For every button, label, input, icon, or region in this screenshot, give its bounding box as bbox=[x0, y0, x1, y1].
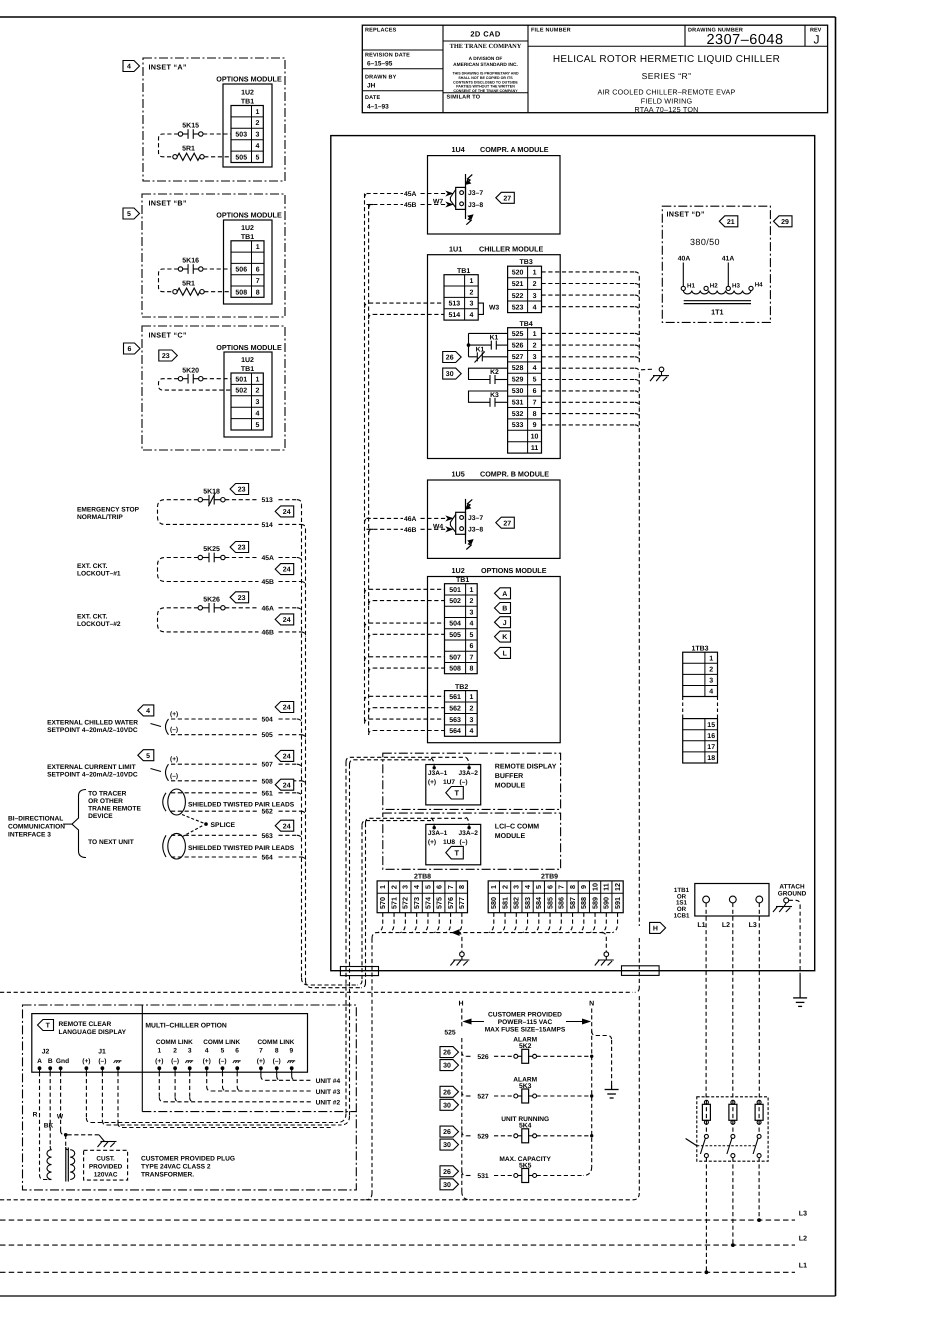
svg-text:23: 23 bbox=[162, 353, 170, 360]
svg-text:J3A–2: J3A–2 bbox=[459, 830, 479, 837]
svg-text:5R1: 5R1 bbox=[182, 280, 195, 287]
svg-text:2TB8: 2TB8 bbox=[414, 873, 431, 880]
contact K1 NO bbox=[469, 344, 492, 346]
svg-text:TB1: TB1 bbox=[456, 577, 469, 584]
wire to 1U8 J3A-2 bbox=[366, 818, 467, 823]
svg-text:(+): (+) bbox=[170, 756, 178, 763]
svg-text:589: 589 bbox=[590, 897, 599, 909]
svg-text:46B: 46B bbox=[262, 629, 275, 636]
svg-text:INTERFACE 3: INTERFACE 3 bbox=[8, 832, 51, 839]
svg-text:SERIES “R”: SERIES “R” bbox=[642, 71, 692, 81]
svg-text:7: 7 bbox=[469, 654, 473, 661]
svg-text:TRANE REMOTE: TRANE REMOTE bbox=[88, 806, 141, 813]
flag J bbox=[495, 617, 511, 628]
bus tail down through feedthrough bbox=[371, 939, 373, 1194]
flag T (remote display) bbox=[38, 1020, 54, 1031]
svg-text:1TB3: 1TB3 bbox=[691, 646, 708, 653]
wire 508 into options TB1-8 bbox=[369, 668, 374, 673]
svg-text:30: 30 bbox=[443, 1182, 451, 1189]
svg-text:1: 1 bbox=[489, 885, 498, 889]
page border frame bbox=[0, 16, 836, 18]
svg-text:K1: K1 bbox=[490, 335, 499, 342]
svg-text:2: 2 bbox=[389, 885, 398, 889]
svg-text:B: B bbox=[48, 1058, 53, 1065]
drop to chassis ground (2TB9) bbox=[602, 933, 607, 952]
svg-text:4: 4 bbox=[469, 621, 473, 628]
flag A bbox=[495, 588, 511, 599]
flag B bbox=[495, 603, 511, 614]
svg-text:561: 561 bbox=[449, 694, 461, 701]
svg-text:5: 5 bbox=[221, 1048, 225, 1055]
2TB8 drop wires bbox=[377, 913, 382, 933]
flag 21 bbox=[719, 216, 738, 227]
svg-text:9: 9 bbox=[579, 885, 588, 889]
lockout 2 contact 5K26 bbox=[198, 606, 202, 610]
svg-text:H1: H1 bbox=[687, 283, 695, 290]
svg-text:10: 10 bbox=[590, 883, 599, 891]
svg-text:T: T bbox=[455, 848, 460, 857]
svg-text:1: 1 bbox=[255, 109, 259, 116]
svg-text:SHIELDED TWISTED PAIR LEADS: SHIELDED TWISTED PAIR LEADS bbox=[188, 801, 295, 808]
svg-text:OR OTHER: OR OTHER bbox=[88, 798, 123, 805]
disconnect 1TB1 box bbox=[695, 884, 769, 917]
svg-text:30: 30 bbox=[443, 1102, 451, 1109]
flag 26 (chiller) bbox=[443, 352, 462, 363]
unit wires group (comm 7-9 to UNIT #4) bbox=[260, 1072, 262, 1076]
svg-text:COMM LINK: COMM LINK bbox=[257, 1039, 294, 1046]
svg-text:581: 581 bbox=[500, 897, 509, 909]
cable feedthrough left bbox=[340, 967, 378, 976]
svg-text:502: 502 bbox=[235, 388, 247, 395]
flag 23 (5K26) bbox=[230, 592, 249, 603]
relay coil 5K5 MAX CAPACITY row bbox=[462, 1171, 467, 1176]
svg-text:5K16: 5K16 bbox=[182, 258, 199, 265]
svg-text:514: 514 bbox=[262, 522, 274, 529]
transformer 1T1 winding bbox=[683, 291, 751, 294]
svg-text:JH: JH bbox=[367, 83, 376, 90]
svg-text:COMMUNICATION: COMMUNICATION bbox=[8, 824, 65, 831]
svg-text:1: 1 bbox=[255, 376, 259, 383]
svg-text:24: 24 bbox=[283, 782, 291, 789]
svg-text:PROVIDED: PROVIDED bbox=[89, 1164, 123, 1171]
svg-text:2: 2 bbox=[469, 289, 473, 296]
svg-text:41A: 41A bbox=[722, 256, 735, 263]
contact K2 bbox=[469, 368, 508, 379]
svg-text:527: 527 bbox=[477, 1094, 489, 1101]
svg-text:SHALL NOT BE COPIED OR ITS: SHALL NOT BE COPIED OR ITS bbox=[458, 76, 513, 80]
wire 5R1 to TB1-5 bbox=[204, 156, 231, 158]
svg-text:529: 529 bbox=[512, 377, 524, 384]
svg-text:30: 30 bbox=[443, 1142, 451, 1149]
svg-text:NORMAL/TRIP: NORMAL/TRIP bbox=[77, 514, 123, 521]
svg-text:17: 17 bbox=[707, 744, 715, 751]
wire 502 into options TB1-2 bbox=[369, 601, 374, 606]
2TB9 drop wires bbox=[489, 913, 494, 933]
svg-text:526: 526 bbox=[512, 342, 524, 349]
svg-text:A: A bbox=[37, 1058, 42, 1065]
svg-text:564: 564 bbox=[449, 728, 461, 735]
svg-text:LANGUAGE DISPLAY: LANGUAGE DISPLAY bbox=[59, 1029, 127, 1036]
svg-text:OPTIONS MODULE: OPTIONS MODULE bbox=[481, 566, 547, 575]
flag 24 (561/562) bbox=[275, 779, 294, 790]
junction arrow on bus bbox=[453, 930, 460, 935]
svg-text:TB4: TB4 bbox=[520, 321, 533, 328]
svg-text:4: 4 bbox=[533, 365, 537, 372]
inset D boundary bbox=[662, 206, 770, 322]
svg-text:3: 3 bbox=[188, 1048, 192, 1055]
contact 5K16 bbox=[178, 267, 182, 271]
flag 24 (563/564) bbox=[275, 820, 294, 831]
svg-text:12: 12 bbox=[613, 883, 622, 891]
svg-text:6: 6 bbox=[545, 885, 554, 889]
svg-text:UNIT #4: UNIT #4 bbox=[316, 1078, 341, 1085]
svg-text:46A: 46A bbox=[262, 605, 275, 612]
svg-text:6: 6 bbox=[435, 885, 444, 889]
comm wires 563/564 with shield bbox=[163, 835, 166, 857]
svg-text:8: 8 bbox=[256, 289, 260, 296]
svg-text:533: 533 bbox=[512, 422, 524, 429]
flag 26 (5K2) bbox=[440, 1047, 459, 1058]
lci module wire pair risers bbox=[361, 825, 363, 980]
svg-text:29: 29 bbox=[781, 219, 789, 226]
svg-text:1: 1 bbox=[533, 270, 537, 277]
svg-text:L2: L2 bbox=[722, 922, 730, 929]
svg-text:RTAA 70–125 TON: RTAA 70–125 TON bbox=[635, 105, 699, 114]
svg-text:45A: 45A bbox=[262, 555, 275, 562]
terminal L2 bbox=[729, 896, 736, 903]
svg-text:LCI–C COMM: LCI–C COMM bbox=[495, 824, 540, 831]
riser 1 (field wiring inside panel) bbox=[364, 194, 366, 724]
svg-text:580: 580 bbox=[489, 897, 498, 909]
svg-text:L2: L2 bbox=[799, 1236, 807, 1243]
svg-text:5K18: 5K18 bbox=[203, 488, 220, 495]
1TB3 lower rows 15-18 bbox=[683, 719, 718, 763]
wire 504 into options TB1-4 bbox=[365, 623, 370, 628]
svg-text:528: 528 bbox=[512, 365, 524, 372]
svg-text:24: 24 bbox=[283, 567, 291, 574]
svg-text:4: 4 bbox=[533, 304, 537, 311]
svg-text:THE TRANE COMPANY: THE TRANE COMPANY bbox=[450, 43, 522, 50]
svg-text:TB1: TB1 bbox=[241, 366, 254, 373]
switch blade 3 bbox=[757, 1134, 761, 1138]
svg-text:508: 508 bbox=[262, 778, 274, 785]
svg-text:531: 531 bbox=[477, 1173, 489, 1180]
flag 29 bbox=[774, 216, 793, 227]
svg-text:5: 5 bbox=[423, 885, 432, 889]
ground bus under strips bbox=[372, 933, 612, 939]
flag 30 (5K4) bbox=[440, 1139, 459, 1150]
svg-text:INSET “B”: INSET “B” bbox=[149, 199, 187, 208]
wire 505 into options TB1-5 bbox=[369, 634, 374, 639]
svg-text:23: 23 bbox=[238, 545, 246, 552]
svg-text:3: 3 bbox=[512, 885, 521, 889]
svg-text:(–): (–) bbox=[460, 839, 468, 846]
svg-text:CUST.: CUST. bbox=[96, 1155, 115, 1162]
svg-text:525: 525 bbox=[444, 1030, 456, 1037]
svg-text:CONSENT OF THE TRANE COMPANY: CONSENT OF THE TRANE COMPANY bbox=[453, 89, 518, 93]
svg-text:505: 505 bbox=[449, 632, 461, 639]
wire to customer ground bbox=[68, 1134, 100, 1136]
svg-text:OPTIONS MODULE: OPTIONS MODULE bbox=[216, 343, 282, 352]
svg-text:SETPOINT 4–20mA/2–10VDC: SETPOINT 4–20mA/2–10VDC bbox=[47, 727, 138, 734]
svg-text:COMPR. A MODULE: COMPR. A MODULE bbox=[480, 145, 549, 154]
emergency stop contact 5K18 bbox=[198, 498, 202, 502]
wire 501 into options TB1-1 bbox=[365, 589, 370, 594]
svg-text:6: 6 bbox=[128, 346, 132, 353]
svg-text:562: 562 bbox=[449, 705, 461, 712]
svg-text:2: 2 bbox=[469, 705, 473, 712]
contact 5K20 bbox=[178, 377, 182, 381]
svg-text:J: J bbox=[814, 33, 820, 47]
svg-text:CUSTOMER PROVIDED PLUG: CUSTOMER PROVIDED PLUG bbox=[141, 1155, 235, 1162]
svg-text:3: 3 bbox=[469, 717, 473, 724]
svg-text:A DIVISION OF: A DIVISION OF bbox=[469, 56, 503, 62]
svg-text:(–): (–) bbox=[273, 1058, 281, 1065]
svg-text:514: 514 bbox=[448, 312, 460, 319]
svg-text:24: 24 bbox=[283, 617, 291, 624]
cable feedthrough right bbox=[622, 966, 660, 976]
svg-text:LOCKOUT–#1: LOCKOUT–#1 bbox=[77, 571, 121, 578]
svg-text:502: 502 bbox=[449, 598, 461, 605]
svg-text:SHIELDED TWISTED PAIR LEADS: SHIELDED TWISTED PAIR LEADS bbox=[188, 845, 295, 852]
svg-text:24: 24 bbox=[283, 705, 291, 712]
svg-text:24: 24 bbox=[283, 754, 291, 761]
svg-text:J3–7: J3–7 bbox=[468, 515, 483, 522]
svg-text:1U1: 1U1 bbox=[449, 245, 462, 254]
svg-text:SIMILAR TO: SIMILAR TO bbox=[447, 95, 481, 101]
svg-text:563: 563 bbox=[262, 833, 274, 840]
svg-text:4: 4 bbox=[127, 64, 131, 71]
svg-text:2307–6048: 2307–6048 bbox=[706, 32, 783, 48]
svg-text:J3–8: J3–8 bbox=[468, 202, 483, 209]
svg-text:573: 573 bbox=[412, 897, 421, 909]
flag 24 (45A/45B) bbox=[275, 564, 294, 575]
inset C boundary bbox=[142, 326, 285, 450]
svg-text:K2: K2 bbox=[490, 369, 499, 376]
svg-text:522: 522 bbox=[512, 293, 524, 300]
svg-text:GROUND: GROUND bbox=[778, 891, 807, 898]
chiller module output wires to riser bbox=[542, 271, 635, 273]
svg-text:526: 526 bbox=[477, 1054, 489, 1061]
contact 5K15 bbox=[178, 132, 182, 136]
svg-text:570: 570 bbox=[378, 897, 387, 909]
drop to chassis ground (2TB8) bbox=[458, 933, 462, 952]
svg-text:2: 2 bbox=[500, 885, 509, 889]
svg-text:586: 586 bbox=[557, 897, 566, 909]
riser 2 (field wiring inside panel) bbox=[368, 205, 370, 736]
power bus L2 bbox=[0, 1244, 795, 1246]
svg-text:DATE: DATE bbox=[365, 95, 380, 101]
customer interface boundary (dash-dot) bbox=[23, 1005, 357, 1190]
svg-text:6: 6 bbox=[256, 267, 260, 274]
svg-text:(+): (+) bbox=[257, 1058, 265, 1065]
svg-text:583: 583 bbox=[523, 897, 532, 909]
svg-text:4: 4 bbox=[469, 728, 473, 735]
svg-text:TB3: TB3 bbox=[520, 259, 533, 266]
brace (comm interface) bbox=[72, 790, 86, 858]
svg-text:1U4: 1U4 bbox=[452, 145, 465, 154]
svg-text:4: 4 bbox=[146, 708, 150, 715]
fuse F1 bbox=[705, 1100, 707, 1134]
svg-text:1: 1 bbox=[378, 885, 387, 889]
svg-text:576: 576 bbox=[446, 897, 455, 909]
svg-text:572: 572 bbox=[401, 897, 410, 909]
svg-text:5R1: 5R1 bbox=[182, 146, 195, 153]
flag 26 (5K3) bbox=[440, 1086, 459, 1097]
flag 26 (5K4) bbox=[440, 1126, 459, 1137]
wire 5K15 to TB1-3 bbox=[203, 133, 231, 135]
svg-text:TYPE 24VAC CLASS 2: TYPE 24VAC CLASS 2 bbox=[141, 1164, 211, 1171]
svg-text:2: 2 bbox=[533, 281, 537, 288]
wire to 1U7 J3A-2 bbox=[346, 757, 466, 762]
wire 45B branch bbox=[369, 205, 374, 210]
svg-text:5K26: 5K26 bbox=[203, 597, 220, 604]
flag 6 bbox=[124, 343, 141, 354]
svg-text:577: 577 bbox=[457, 897, 466, 909]
power bus L1 bbox=[0, 1271, 795, 1273]
relay coil 5K3 ALARM row bbox=[462, 1092, 467, 1097]
inset B boundary bbox=[142, 194, 285, 317]
svg-text:501: 501 bbox=[449, 587, 461, 594]
svg-text:11: 11 bbox=[531, 445, 539, 452]
flag 5 bbox=[123, 208, 140, 219]
svg-text:3: 3 bbox=[469, 301, 473, 308]
svg-text:513: 513 bbox=[262, 497, 274, 504]
display module wire pair risers bbox=[345, 762, 347, 1114]
svg-text:8: 8 bbox=[568, 885, 577, 889]
cust provided 120VAC box bbox=[84, 1150, 128, 1180]
switch blade 2 bbox=[731, 1134, 735, 1138]
svg-text:FILE NUMBER: FILE NUMBER bbox=[531, 28, 571, 34]
svg-text:8: 8 bbox=[469, 666, 473, 673]
flag K bbox=[495, 631, 511, 642]
collector A (outside panel) bbox=[301, 504, 303, 978]
svg-text:2: 2 bbox=[533, 342, 537, 349]
main riser (dashed) right side bbox=[638, 276, 640, 364]
svg-text:L3: L3 bbox=[799, 1211, 807, 1218]
svg-text:J3A–1: J3A–1 bbox=[428, 770, 448, 777]
svg-text:9: 9 bbox=[533, 422, 537, 429]
svg-text:5: 5 bbox=[146, 753, 150, 760]
svg-text:564: 564 bbox=[262, 855, 274, 862]
svg-text:2: 2 bbox=[255, 120, 259, 127]
svg-text:26: 26 bbox=[443, 1050, 451, 1057]
terminal block TB1 (inset A) bbox=[231, 106, 263, 163]
svg-text:1: 1 bbox=[469, 694, 473, 701]
svg-text:CHILLER MODULE: CHILLER MODULE bbox=[479, 245, 543, 254]
chassis ground (2TB9) bbox=[604, 952, 609, 957]
svg-text:BUFFER: BUFFER bbox=[495, 773, 523, 780]
svg-text:2: 2 bbox=[709, 666, 713, 673]
wire 5K20 to TB1-1 bbox=[203, 378, 231, 380]
svg-text:L: L bbox=[503, 651, 508, 658]
svg-text:24: 24 bbox=[283, 509, 291, 516]
svg-text:506: 506 bbox=[235, 267, 247, 274]
svg-text:1U5: 1U5 bbox=[452, 469, 465, 478]
flag 30 (5K5) bbox=[440, 1179, 459, 1190]
svg-text:(–): (–) bbox=[170, 727, 178, 734]
customer transformer primary bbox=[47, 1150, 52, 1180]
svg-text:9: 9 bbox=[289, 1048, 293, 1055]
svg-text:J3A–1: J3A–1 bbox=[428, 830, 448, 837]
resistor 5R1 (inset A) bbox=[173, 155, 177, 159]
svg-text:588: 588 bbox=[579, 897, 588, 909]
flag 24 (507/508) bbox=[275, 750, 294, 761]
svg-text:5: 5 bbox=[533, 377, 537, 384]
svg-text:587: 587 bbox=[568, 897, 577, 909]
wire 563 into TB2-3 bbox=[365, 719, 370, 724]
svg-text:(–): (–) bbox=[98, 1058, 106, 1065]
flag 4 (setpoint) bbox=[138, 705, 154, 716]
svg-text:THIS DRAWING IS PROPRIETARY AN: THIS DRAWING IS PROPRIETARY AND bbox=[452, 72, 518, 76]
wire 45A branch bbox=[365, 194, 370, 199]
H line bbox=[461, 1009, 463, 1027]
lockout 1 contact 5K25 bbox=[198, 555, 202, 559]
svg-text:DRAWN BY: DRAWN BY bbox=[365, 75, 397, 81]
remote display buffer module 1U7 bbox=[383, 753, 561, 809]
svg-text:26: 26 bbox=[443, 1129, 451, 1136]
svg-text:532: 532 bbox=[512, 411, 524, 418]
flag 26 (5K5) bbox=[440, 1166, 459, 1177]
svg-text:26: 26 bbox=[443, 1169, 451, 1176]
svg-text:30: 30 bbox=[443, 1063, 451, 1070]
wire return to TB1-2 bbox=[159, 379, 232, 390]
customer transformer secondary bbox=[70, 1150, 75, 1180]
svg-text:507: 507 bbox=[262, 762, 274, 769]
svg-text:TB1: TB1 bbox=[457, 268, 470, 275]
svg-text:DEVICE: DEVICE bbox=[88, 813, 113, 820]
wire 507 into options TB1-7 bbox=[365, 657, 370, 662]
unit wires group (comm 4-6 to UNIT #3) bbox=[206, 1072, 208, 1086]
svg-text:J3A–2: J3A–2 bbox=[459, 770, 479, 777]
svg-text:7: 7 bbox=[256, 278, 260, 285]
svg-text:(–): (–) bbox=[218, 1058, 226, 1065]
N ground branch bbox=[592, 1031, 612, 1040]
svg-text:8: 8 bbox=[275, 1048, 279, 1055]
svg-text:10: 10 bbox=[531, 434, 539, 441]
svg-text:B: B bbox=[502, 606, 507, 613]
svg-text:23: 23 bbox=[238, 487, 246, 494]
svg-text:3: 3 bbox=[401, 885, 410, 889]
svg-text:525: 525 bbox=[512, 331, 524, 338]
svg-text:520: 520 bbox=[512, 270, 524, 277]
svg-text:J3–8: J3–8 bbox=[468, 527, 483, 534]
svg-text:H4: H4 bbox=[755, 282, 763, 289]
svg-text:380/50: 380/50 bbox=[690, 237, 720, 247]
svg-text:3: 3 bbox=[469, 609, 473, 616]
svg-text:508: 508 bbox=[235, 289, 247, 296]
svg-text:7: 7 bbox=[533, 399, 537, 406]
svg-text:27: 27 bbox=[503, 520, 511, 527]
svg-text:2: 2 bbox=[255, 388, 259, 395]
svg-text:5: 5 bbox=[255, 422, 259, 429]
svg-text:EXT. CKT.: EXT. CKT. bbox=[77, 563, 108, 570]
svg-text:2D CAD: 2D CAD bbox=[470, 30, 501, 39]
flag 23 (5K18) bbox=[230, 484, 249, 495]
svg-text:1: 1 bbox=[469, 278, 473, 285]
svg-text:UNIT #3: UNIT #3 bbox=[316, 1089, 341, 1096]
svg-text:A: A bbox=[502, 591, 507, 598]
transformer core bbox=[65, 1148, 67, 1182]
svg-text:BK: BK bbox=[44, 1123, 54, 1130]
svg-text:(–): (–) bbox=[170, 773, 178, 780]
flag 24 (504/505) bbox=[275, 702, 294, 713]
svg-text:45B: 45B bbox=[404, 202, 417, 209]
svg-text:507: 507 bbox=[449, 654, 461, 661]
svg-text:7: 7 bbox=[446, 885, 455, 889]
svg-text:30: 30 bbox=[446, 371, 454, 378]
riser to bottom corner bbox=[638, 938, 640, 988]
